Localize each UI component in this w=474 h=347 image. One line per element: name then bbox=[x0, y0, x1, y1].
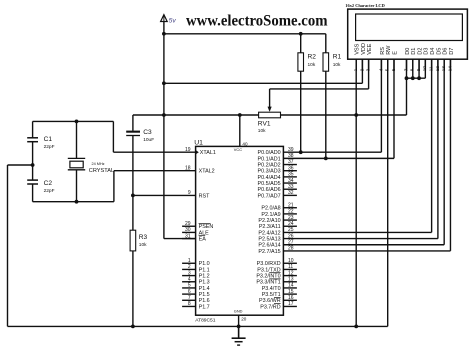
crystal X1 bbox=[68, 157, 85, 159]
LCD pin stub D5 bbox=[437, 59, 439, 71]
svg-text:AT89C51: AT89C51 bbox=[195, 317, 216, 323]
ground symbol bbox=[238, 326, 240, 337]
wire XTAL1 to U1 bbox=[113, 151, 195, 153]
svg-text:RST: RST bbox=[199, 193, 210, 199]
svg-text:P1.0: P1.0 bbox=[199, 261, 210, 267]
pin stub P3.1 bbox=[283, 268, 297, 270]
svg-text:D4: D4 bbox=[430, 48, 436, 55]
wire C3 top lead bbox=[132, 115, 134, 131]
pin stub P1.0 bbox=[182, 262, 196, 264]
svg-text:VCC: VCC bbox=[234, 147, 242, 152]
svg-text:P0.2/AD2: P0.2/AD2 bbox=[258, 162, 281, 168]
svg-text:24: 24 bbox=[288, 221, 294, 227]
RV1 wiper arrowhead bbox=[268, 107, 272, 112]
svg-text:RV1: RV1 bbox=[258, 121, 271, 128]
pin stub P0.6 bbox=[283, 188, 297, 190]
svg-text:P2.0/A8: P2.0/A8 bbox=[261, 206, 280, 212]
node R2 top junction bbox=[299, 32, 303, 36]
wire far left column bbox=[7, 165, 9, 326]
svg-text:34: 34 bbox=[288, 178, 294, 184]
wire XTAL1 drop bbox=[112, 121, 114, 152]
svg-text:P0.0/AD0: P0.0/AD0 bbox=[258, 150, 281, 156]
svg-text:RW: RW bbox=[386, 45, 392, 55]
overline INT0 bbox=[269, 272, 280, 274]
wire RST to U1 bbox=[133, 194, 196, 196]
svg-text:P0.5/AD5: P0.5/AD5 bbox=[258, 181, 281, 187]
wire R2 bottom lead bbox=[300, 71, 302, 152]
pin stub P1.5 bbox=[182, 293, 196, 295]
node R1 to P0.1 net bbox=[324, 156, 328, 160]
svg-text:C2: C2 bbox=[44, 180, 53, 187]
pin stub P2.2 bbox=[283, 219, 297, 221]
svg-text:5: 5 bbox=[385, 68, 390, 71]
wire RW column bbox=[387, 59, 389, 326]
svg-text:15: 15 bbox=[288, 289, 294, 295]
svg-text:10k: 10k bbox=[139, 242, 147, 248]
wire GND pin lead bbox=[238, 315, 240, 337]
svg-text:VSS: VSS bbox=[355, 43, 361, 54]
wire D2 drop bbox=[418, 59, 420, 78]
pin stub P0.3 bbox=[283, 170, 297, 172]
wire C1 top lead bbox=[32, 121, 34, 137]
svg-text:10uF: 10uF bbox=[143, 137, 154, 143]
svg-text:1: 1 bbox=[188, 258, 191, 264]
svg-text:7: 7 bbox=[403, 68, 408, 71]
svg-text:10k: 10k bbox=[308, 62, 316, 68]
LCD LM016L outer box bbox=[348, 9, 468, 59]
svg-text:9: 9 bbox=[416, 68, 421, 71]
svg-text:P1.3: P1.3 bbox=[199, 280, 210, 286]
svg-text:10k: 10k bbox=[333, 62, 341, 68]
svg-text:D6: D6 bbox=[443, 48, 449, 55]
svg-text:7: 7 bbox=[188, 295, 191, 301]
LCD pin stub D1 bbox=[412, 59, 414, 71]
pin stub P0.2 bbox=[283, 164, 297, 166]
svg-text:13: 13 bbox=[441, 66, 446, 72]
node D2 bus junction bbox=[417, 76, 421, 80]
pin stub P0.5 bbox=[283, 182, 297, 184]
pin stub P3.2 bbox=[283, 275, 297, 277]
pin stub P0.4 bbox=[283, 176, 297, 178]
pin stub P3.4 bbox=[283, 287, 297, 289]
svg-text:14: 14 bbox=[447, 66, 452, 72]
node D0 bus junction bbox=[405, 76, 409, 80]
pin stub EA bbox=[182, 238, 196, 240]
pin stub P1.3 bbox=[182, 281, 196, 283]
svg-text:24 MHz: 24 MHz bbox=[92, 162, 105, 166]
svg-text:P2.6/A14: P2.6/A14 bbox=[258, 243, 280, 249]
capacitor C3 plate bottom bbox=[126, 135, 140, 137]
wire P0.0 to RS bbox=[283, 151, 381, 153]
svg-text:6: 6 bbox=[188, 289, 191, 295]
svg-text:VDD: VDD bbox=[361, 43, 367, 55]
overline RD bbox=[274, 303, 281, 305]
wire RV1 right to ground net bbox=[281, 114, 407, 116]
svg-text:P1.2: P1.2 bbox=[199, 274, 210, 280]
svg-text:D7: D7 bbox=[449, 48, 455, 55]
node C1-C2 midpoint bbox=[31, 163, 35, 167]
svg-text:GND: GND bbox=[234, 309, 243, 314]
svg-text:1: 1 bbox=[353, 68, 358, 71]
wire top rail horizontal bbox=[164, 33, 326, 35]
svg-text:11: 11 bbox=[288, 264, 293, 270]
svg-text:10k: 10k bbox=[258, 128, 266, 134]
power flag 5V bbox=[161, 15, 168, 22]
pin stub P3.3 bbox=[283, 281, 297, 283]
LCD pin stub D3 bbox=[424, 59, 426, 71]
svg-text:P3.4/T0: P3.4/T0 bbox=[262, 286, 281, 292]
svg-text:P1.4: P1.4 bbox=[199, 286, 210, 292]
svg-text:www.electroSome.com: www.electroSome.com bbox=[186, 12, 328, 29]
svg-text:U1: U1 bbox=[194, 140, 203, 147]
wire XTAL2 rise bbox=[113, 171, 115, 202]
wire D1 drop bbox=[412, 59, 414, 78]
svg-text:17: 17 bbox=[288, 301, 294, 307]
wire P2.5 to D5 bbox=[283, 238, 438, 240]
wire crystal top lead bbox=[76, 121, 78, 158]
svg-text:P2.4/A12: P2.4/A12 bbox=[258, 230, 280, 236]
pin stub P0.7 bbox=[283, 194, 297, 196]
svg-text:P2.2/A10: P2.2/A10 bbox=[258, 218, 280, 224]
wire P2.4 to D4 bbox=[283, 231, 431, 233]
wire 5V power rail vertical bbox=[163, 21, 165, 239]
svg-text:4: 4 bbox=[188, 276, 191, 282]
LCD pin stub VEE bbox=[368, 59, 370, 71]
wire D0 column bbox=[406, 59, 408, 115]
wire P2.6 to D6 bbox=[283, 244, 444, 246]
svg-text:P0.7/AD7: P0.7/AD7 bbox=[258, 193, 281, 199]
capacitor C3 plate top bbox=[126, 131, 140, 133]
LCD pin stub D4 bbox=[431, 59, 433, 71]
svg-text:R3: R3 bbox=[139, 234, 148, 241]
svg-text:20: 20 bbox=[241, 317, 247, 322]
potentiometer RV1 body bbox=[259, 112, 281, 118]
wire C2 bottom lead bbox=[32, 184, 34, 202]
pin stub P1.4 bbox=[182, 287, 196, 289]
svg-text:P2.1/A9: P2.1/A9 bbox=[261, 212, 280, 218]
wire XTAL2 node horizontal bbox=[33, 201, 114, 203]
svg-text:13: 13 bbox=[288, 276, 294, 282]
wire C3 top to RV1 left bbox=[133, 114, 259, 116]
svg-text:P3.3/INT1: P3.3/INT1 bbox=[256, 280, 280, 286]
wire XTAL2 to U1 bbox=[114, 170, 196, 172]
svg-text:35: 35 bbox=[288, 172, 294, 178]
wire XTAL1 node horizontal bbox=[33, 120, 114, 122]
node 5V rail at y115 bbox=[162, 113, 166, 117]
svg-text:36: 36 bbox=[288, 165, 294, 171]
resistor R1 bbox=[323, 53, 329, 71]
wire VDD horizontal bbox=[164, 82, 363, 84]
svg-text:21: 21 bbox=[288, 202, 294, 208]
svg-text:12: 12 bbox=[435, 66, 440, 72]
LCD pin stub D7 bbox=[449, 59, 451, 71]
node VSS ground junction bbox=[354, 113, 358, 117]
svg-text:EA: EA bbox=[199, 236, 207, 242]
svg-text:8: 8 bbox=[188, 301, 191, 307]
wire midpoint to left column bbox=[8, 164, 33, 166]
svg-text:R2: R2 bbox=[308, 54, 317, 61]
svg-text:XTAL1: XTAL1 bbox=[200, 150, 216, 156]
svg-text:16: 16 bbox=[288, 295, 294, 301]
node top rail junction bbox=[162, 32, 166, 36]
pin stub P1.1 bbox=[182, 268, 196, 270]
svg-text:P2.5/A13: P2.5/A13 bbox=[258, 236, 280, 242]
svg-text:18: 18 bbox=[185, 165, 191, 171]
label 5v bbox=[169, 17, 177, 24]
svg-text:2: 2 bbox=[359, 68, 364, 71]
svg-text:P2.7/A15: P2.7/A15 bbox=[258, 249, 280, 255]
wire 5V rail to EA pin bbox=[164, 238, 196, 240]
svg-text:P1.7: P1.7 bbox=[199, 304, 210, 310]
op-amp U1 box outline AT89C51 bbox=[196, 146, 284, 315]
svg-text:11: 11 bbox=[429, 66, 434, 71]
svg-text:5v: 5v bbox=[169, 17, 177, 24]
svg-text:12: 12 bbox=[288, 270, 294, 276]
LCD pin stub VDD bbox=[361, 59, 363, 71]
svg-text:22: 22 bbox=[288, 209, 294, 215]
pin stub P2.1 bbox=[283, 213, 297, 215]
svg-text:P2.3/A11: P2.3/A11 bbox=[259, 224, 281, 230]
wire VEE horizontal bbox=[270, 88, 369, 90]
svg-text:4: 4 bbox=[378, 68, 383, 71]
capacitor C2 bbox=[27, 179, 38, 181]
svg-text:10: 10 bbox=[288, 258, 294, 264]
node VSS at ground rail bbox=[354, 325, 358, 329]
node VCC branch bbox=[238, 113, 242, 117]
pin stub P1.7 bbox=[182, 305, 196, 307]
wire D0-D3 ground bus bbox=[407, 77, 426, 79]
node VDD at 5V rail bbox=[162, 81, 166, 85]
LCD display window bbox=[356, 14, 463, 41]
wire VEE riser to LCD pin 3 bbox=[368, 59, 370, 89]
pin stub P2.3 bbox=[283, 225, 297, 227]
resistor R3 bbox=[130, 230, 136, 251]
resistor R2 bbox=[298, 53, 304, 71]
wire P2.7 to D7 bbox=[283, 250, 450, 252]
node R3 ground junction bbox=[131, 325, 135, 329]
wire VCC drop to U1 pin 40 bbox=[239, 115, 241, 146]
wire VDD riser to LCD pin 2 bbox=[361, 59, 363, 83]
svg-text:19: 19 bbox=[185, 147, 191, 153]
node D1 bus junction bbox=[411, 76, 415, 80]
LCD pin stub D2 bbox=[418, 59, 420, 71]
svg-text:D2: D2 bbox=[417, 48, 423, 55]
svg-text:30: 30 bbox=[185, 227, 191, 233]
svg-text:P0.1/AD1: P0.1/AD1 bbox=[258, 156, 281, 162]
wire R1 bottom lead bbox=[325, 71, 327, 158]
wire ground rail bbox=[8, 325, 388, 327]
node R2 to P0.0 net bbox=[299, 150, 303, 154]
svg-text:P0.4/AD4: P0.4/AD4 bbox=[258, 175, 281, 181]
pin stub P3.0 bbox=[283, 262, 297, 264]
wire C1 bottom to C2 top bbox=[32, 142, 34, 180]
svg-text:C1: C1 bbox=[44, 136, 53, 143]
wire R2 top lead bbox=[300, 34, 302, 53]
svg-text:32: 32 bbox=[288, 190, 294, 196]
wire D3 drop bbox=[424, 59, 426, 78]
svg-text:XTAL2: XTAL2 bbox=[199, 169, 215, 175]
wire crystal bottom lead bbox=[76, 170, 78, 202]
svg-text:D0: D0 bbox=[405, 48, 411, 55]
wire RV1 wiper drop bbox=[269, 89, 271, 110]
svg-text:RS: RS bbox=[380, 47, 386, 55]
overline INT1 bbox=[269, 278, 280, 280]
svg-text:3: 3 bbox=[188, 270, 191, 276]
node crystal top junction bbox=[75, 120, 79, 124]
LCD pin stub D0 bbox=[406, 59, 408, 71]
svg-text:9: 9 bbox=[188, 190, 191, 196]
svg-text:D1: D1 bbox=[411, 48, 417, 55]
svg-text:22pF: 22pF bbox=[44, 188, 55, 194]
overline WR bbox=[274, 296, 281, 298]
svg-text:5: 5 bbox=[188, 283, 191, 289]
svg-text:P0.6/AD6: P0.6/AD6 bbox=[258, 187, 281, 193]
wire C3 bottom to R3 top bbox=[132, 136, 134, 231]
svg-text:E: E bbox=[392, 51, 398, 55]
LCD pin stub RS bbox=[380, 59, 382, 71]
overline EA bbox=[199, 235, 206, 237]
pin stub P1.6 bbox=[182, 299, 196, 301]
svg-text:3: 3 bbox=[366, 68, 371, 71]
pin stub P3.7 bbox=[283, 305, 297, 307]
capacitor C1 bbox=[27, 137, 38, 139]
svg-text:6: 6 bbox=[391, 68, 396, 71]
LCD pin stub RW bbox=[387, 59, 389, 71]
svg-text:8: 8 bbox=[410, 68, 415, 71]
wire R3 bottom lead bbox=[132, 251, 134, 327]
svg-text:PSEN: PSEN bbox=[199, 224, 214, 230]
pin stub P3.6 bbox=[283, 299, 297, 301]
pin stub P3.5 bbox=[283, 293, 297, 295]
svg-text:31: 31 bbox=[185, 233, 191, 239]
svg-text:10: 10 bbox=[422, 66, 427, 72]
LCD pin stub D6 bbox=[443, 59, 445, 71]
wire P0.1 to E bbox=[283, 157, 394, 159]
svg-text:37: 37 bbox=[288, 159, 294, 165]
svg-text:P3.0/RXD: P3.0/RXD bbox=[257, 261, 281, 267]
node crystal bottom junction bbox=[75, 200, 79, 204]
svg-text:22pF: 22pF bbox=[44, 144, 55, 150]
pin stub P1.2 bbox=[182, 275, 196, 277]
wire VSS column bbox=[355, 59, 357, 326]
svg-text:40: 40 bbox=[242, 141, 248, 146]
node GND junction bbox=[237, 325, 241, 329]
svg-text:29: 29 bbox=[185, 221, 191, 227]
svg-text:16x2 Character LCD: 16x2 Character LCD bbox=[345, 3, 385, 8]
svg-text:14: 14 bbox=[288, 283, 294, 289]
wire R1 top lead bbox=[325, 34, 327, 53]
svg-text:CRYSTAL: CRYSTAL bbox=[89, 168, 114, 174]
node RST junction bbox=[131, 193, 135, 197]
pin stub P2.0 bbox=[283, 207, 297, 209]
svg-text:P0.3/AD3: P0.3/AD3 bbox=[258, 169, 281, 175]
svg-text:P3.7/RD: P3.7/RD bbox=[260, 304, 280, 310]
svg-text:23: 23 bbox=[288, 215, 294, 221]
pin stub ALE bbox=[182, 231, 196, 233]
pin stub PSEN bbox=[182, 225, 196, 227]
svg-text:2: 2 bbox=[188, 264, 191, 270]
LCD pin stub VSS bbox=[355, 59, 357, 71]
svg-text:VEE: VEE bbox=[367, 43, 373, 54]
svg-text:D5: D5 bbox=[436, 48, 442, 55]
svg-text:33: 33 bbox=[288, 184, 294, 190]
pin XTAL1 clock wedge bbox=[196, 150, 199, 154]
svg-text:P1.1: P1.1 bbox=[199, 267, 210, 273]
svg-text:C3: C3 bbox=[143, 129, 152, 136]
svg-text:P1.5: P1.5 bbox=[199, 292, 210, 298]
svg-text:P1.6: P1.6 bbox=[199, 298, 210, 304]
overline PSEN bbox=[199, 222, 211, 224]
svg-text:R1: R1 bbox=[333, 54, 342, 61]
svg-text:D3: D3 bbox=[424, 48, 430, 55]
LCD pin stub E bbox=[393, 59, 395, 71]
